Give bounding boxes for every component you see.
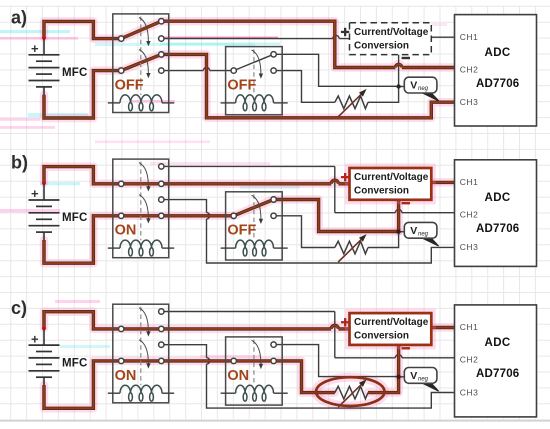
wire K1b NO to relay K2 common (hop): [164, 67, 231, 70]
switch contact terminals: [119, 309, 277, 364]
svg-text:Current/Voltage: Current/Voltage: [354, 27, 429, 38]
wire to ADC CH2 (hop): [335, 210, 455, 213]
svg-text:ON: ON: [115, 368, 137, 384]
svg-text:AD7706: AD7706: [476, 78, 519, 90]
switch contact terminals: [119, 19, 277, 74]
wire K2 NO to rheostat: [276, 216, 334, 248]
ADC AD7706 box: [455, 160, 537, 267]
rheostat wiper arrow: [338, 240, 361, 262]
wire K2 NO to rheostat: [276, 71, 334, 103]
minus terminal label: [402, 347, 410, 349]
junction dot on battery positive terminal: [42, 36, 46, 40]
switch contact terminals: [119, 164, 277, 219]
wire drop to CH2: [334, 312, 336, 358]
switch K2 blade (NC): [234, 54, 274, 70]
wire rheostat to node N1 (red path): [368, 377, 399, 393]
wire node N1 to Vneg: [399, 376, 405, 378]
wire K2 NC to node N1: [276, 54, 398, 86]
switch K1b blade (NC) (red path): [121, 54, 161, 70]
relay box: [113, 304, 169, 403]
svg-text:+: +: [31, 41, 39, 56]
switch K2 blade (NC) (red path): [234, 200, 274, 216]
wire junction node: [396, 375, 400, 379]
svg-text:AD7706: AD7706: [476, 223, 519, 235]
switch K1b blade (NO) (red path): [124, 359, 159, 362]
wire K2 NC to node N1 (red path): [276, 200, 398, 232]
relay box: [226, 47, 283, 115]
rheostat R: [335, 241, 368, 254]
wire K1b NC to ADC CH3 (hop): [164, 345, 455, 408]
wire node N1 to Vneg: [399, 86, 405, 88]
relay coil: [221, 240, 288, 256]
battery MFC cell stack: [29, 329, 60, 386]
switch K2 blade (NO) (red path): [237, 359, 271, 362]
rheostat wiper arrow: [338, 385, 361, 407]
svg-text:CH3: CH3: [460, 387, 479, 397]
switch K1b blade (NO) (red path): [124, 214, 159, 217]
svg-text:MFC: MFC: [62, 357, 88, 369]
relay actuation dashed line: [140, 162, 142, 241]
relay coil: [108, 240, 174, 256]
svg-text:OFF: OFF: [227, 78, 256, 94]
switch K1a blade (NO) (red path): [124, 182, 159, 185]
wire node N1 to Vneg: [399, 231, 405, 233]
wire K1b NC to ADC CH3 (hop): [164, 200, 455, 263]
svg-text:CH1: CH1: [460, 177, 479, 187]
svg-text:CH1: CH1: [460, 322, 479, 332]
svg-text:CH2: CH2: [460, 355, 479, 365]
svg-text:CH1: CH1: [460, 32, 479, 42]
red current path glow: [44, 21, 455, 118]
svg-text:V: V: [410, 225, 417, 237]
relay box: [226, 192, 283, 260]
svg-text:+: +: [31, 186, 39, 201]
svg-text:neg: neg: [418, 86, 429, 92]
wire conversion - lead (red path): [397, 345, 400, 377]
wire MFC+ to relay K1 common (red path): [44, 21, 118, 38]
svg-text:OFF: OFF: [115, 78, 144, 94]
Vneg callout box: [404, 77, 438, 101]
plus terminal label: [341, 28, 349, 36]
wire K1a NC stub: [164, 165, 335, 167]
wire K1a NC to ADC CH2 (with hop) (red path): [164, 21, 455, 67]
relay actuation dashed line: [140, 307, 142, 386]
current/voltage conversion box: [350, 23, 432, 55]
wire rheostat to node N1: [368, 87, 399, 103]
svg-text:CH2: CH2: [460, 64, 479, 74]
svg-text:CH2: CH2: [460, 210, 479, 220]
wire conversion out to CH1 (red path): [431, 326, 454, 329]
relay coil: [221, 95, 288, 111]
switch actuation arrows: [139, 308, 263, 369]
switch actuation arrows: [139, 18, 263, 79]
wire conversion - lead: [398, 55, 400, 87]
wire to ADC CH2 (hop): [335, 355, 455, 358]
wire MFC+ to relay K1 common (red path): [44, 167, 118, 184]
svg-text:Current/Voltage: Current/Voltage: [354, 172, 429, 183]
ADC AD7706 box: [455, 305, 537, 417]
plus terminal label: [341, 173, 349, 181]
wire conversion out to CH1: [431, 36, 454, 38]
svg-text:OFF: OFF: [227, 223, 256, 239]
wire MFC- return (red path): [44, 216, 118, 263]
svg-text:MFC: MFC: [62, 67, 88, 79]
wire conversion - lead (red path): [397, 200, 400, 232]
relay box: [113, 159, 169, 258]
switch K1a blade (NC) (red path): [121, 21, 161, 38]
svg-text:neg: neg: [418, 377, 429, 383]
wire K1b NO to relay K2 common (red path): [164, 359, 231, 362]
svg-text:neg: neg: [418, 231, 429, 237]
wire K1a NC stub: [164, 311, 335, 313]
svg-text:a): a): [11, 8, 27, 28]
battery MFC cell stack: [29, 184, 60, 241]
Vneg callout box: [404, 222, 438, 246]
red current path glow: [44, 312, 455, 409]
switch actuation arrows: [139, 163, 263, 224]
svg-text:Conversion: Conversion: [354, 40, 409, 51]
junction dot on battery positive terminal: [42, 326, 46, 330]
svg-text:AD7706: AD7706: [476, 368, 519, 380]
svg-text:Current/Voltage: Current/Voltage: [354, 317, 429, 328]
relay coil: [108, 385, 174, 401]
plus terminal label: [341, 318, 349, 326]
relay actuation dashed line: [253, 49, 255, 95]
wire MFC+ to relay K1 common (red path): [44, 312, 118, 329]
wire MFC- return (red path): [44, 361, 118, 408]
wire K1b NC to ADC CH3 (red path): [164, 54, 455, 117]
battery MFC cell stack: [29, 39, 60, 96]
wire junction node: [396, 84, 400, 88]
Vneg callout box: [404, 368, 438, 392]
svg-text:c): c): [11, 298, 27, 318]
panel b: [11, 153, 537, 267]
current/voltage conversion box: [350, 168, 432, 200]
highlight ellipse around rheostat: [316, 377, 384, 406]
panel a: [11, 8, 537, 127]
svg-text:MFC: MFC: [62, 212, 88, 224]
relay actuation dashed line: [253, 194, 255, 240]
panel c: [11, 298, 537, 417]
svg-text:CH3: CH3: [460, 242, 479, 252]
wire K1a NO to conversion + (hop): [164, 35, 350, 38]
svg-text:CH3: CH3: [460, 97, 479, 107]
minus terminal label: [402, 57, 410, 59]
wire junction node: [396, 230, 400, 234]
svg-text:V: V: [410, 80, 417, 92]
relay actuation dashed line: [253, 340, 255, 386]
current/voltage conversion box: [350, 313, 432, 345]
relay box: [226, 337, 283, 405]
svg-text:+: +: [31, 331, 39, 346]
switch K1a blade (NO) (red path): [124, 327, 159, 330]
svg-text:b): b): [11, 153, 28, 173]
svg-text:Conversion: Conversion: [354, 186, 409, 197]
relay coil: [221, 385, 288, 401]
red current path glow: [44, 167, 455, 264]
ADC AD7706 box: [455, 15, 537, 126]
svg-text:ON: ON: [115, 223, 137, 239]
rheostat wiper arrow: [338, 95, 361, 117]
relay coil: [108, 95, 174, 111]
svg-text:V: V: [410, 370, 417, 382]
wire MFC- return (red path): [44, 71, 118, 118]
wire K2 NC to node N1: [276, 345, 398, 377]
relay actuation dashed line: [140, 17, 142, 96]
relay box: [113, 14, 169, 113]
rheostat R: [335, 96, 368, 109]
svg-text:ADC: ADC: [485, 47, 511, 59]
svg-text:Conversion: Conversion: [354, 331, 409, 342]
wire drop to CH2: [334, 166, 336, 212]
wire conversion out to CH1 (red path): [431, 181, 454, 184]
svg-text:ON: ON: [227, 368, 249, 384]
wire rheostat to node N1: [368, 232, 399, 248]
wire K2 NO to rheostat (red path): [276, 361, 334, 393]
rheostat R: [335, 386, 368, 399]
compression artifact streaks: [0, 23, 447, 358]
wire K1a NO to conversion + (hop) (red path): [164, 325, 350, 329]
minus terminal label: [402, 202, 410, 204]
wire K1b NO to relay K2 common (red path): [164, 214, 231, 217]
svg-text:ADC: ADC: [485, 192, 511, 204]
svg-text:ADC: ADC: [485, 337, 511, 349]
wire K1a NO to conversion + (hop) (red path): [164, 180, 350, 184]
grid bottom boundary: [0, 420, 550, 422]
junction dot on battery positive terminal: [42, 181, 46, 185]
